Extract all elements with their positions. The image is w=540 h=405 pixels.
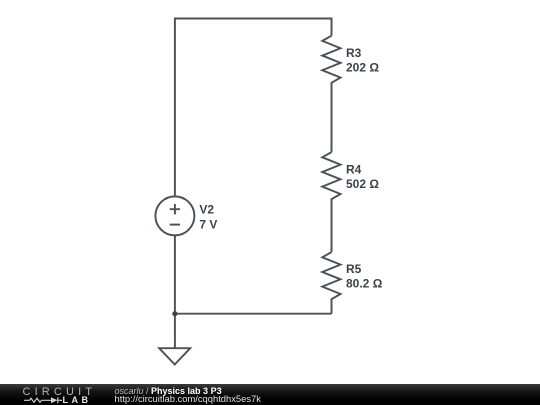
svg-text:502 Ω: 502 Ω xyxy=(346,177,379,191)
svg-text:V2: V2 xyxy=(199,203,214,217)
svg-text:R4: R4 xyxy=(346,162,362,176)
svg-text:80.2 Ω: 80.2 Ω xyxy=(346,277,383,291)
svg-text:7 V: 7 V xyxy=(199,218,217,232)
svg-text:202 Ω: 202 Ω xyxy=(346,61,379,75)
svg-text:LAB: LAB xyxy=(63,395,92,405)
svg-text:http://circuitlab.com/cqqhtdhx: http://circuitlab.com/cqqhtdhx5es7k xyxy=(115,393,262,404)
svg-text:R3: R3 xyxy=(346,46,362,60)
svg-text:R5: R5 xyxy=(346,262,362,276)
